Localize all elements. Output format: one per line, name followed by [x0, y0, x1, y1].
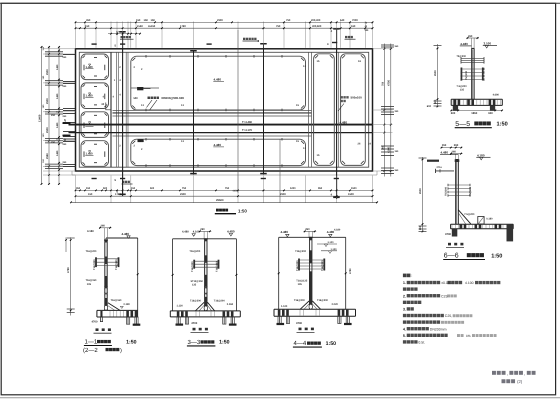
svg-text:4: 4: [331, 193, 333, 197]
plan: section cut line 5 (vertical): [122, 31, 124, 196]
section 3-3 (interior wall, full box): slab end bars/piles: [223, 311, 226, 316]
svg-text:350: 350: [395, 110, 400, 113]
svg-text:140: 140: [133, 97, 138, 100]
plan: dark box on weir line: [137, 87, 143, 90]
section 3-3 (interior wall, full box): haunch: [195, 302, 204, 311]
section 1-1 (edge wall): vertical dim line: [65, 237, 67, 252]
section 1-1 (edge wall): vertical dim line: [70, 237, 72, 315]
svg-text:135: 135: [87, 283, 92, 286]
svg-text:350: 350: [76, 187, 81, 190]
plan left dimension lines: [41, 47, 43, 184]
section 4-4: water level marks right of wall: [317, 243, 337, 245]
svg-text:T16@200: T16@200: [317, 299, 329, 302]
svg-text:0.5t.: 0.5t.: [418, 341, 425, 345]
svg-text:4700: 4700: [445, 233, 451, 236]
svg-text:260: 260: [101, 225, 106, 228]
svg-text:3.: 3.: [403, 308, 406, 312]
svg-text:5: 5: [115, 44, 117, 47]
section 1-1: left slab end bar: [100, 311, 102, 317]
svg-text:4700: 4700: [92, 320, 98, 323]
svg-text:4.480: 4.480: [281, 230, 289, 234]
svg-text:600: 600: [451, 112, 456, 115]
svg-text:T16@200: T16@200: [216, 261, 219, 272]
section 1-1: small level tri on haunch: [120, 306, 123, 308]
plan: chamber corner ticks: [132, 58, 135, 61]
plan: section cut line 3 (vertical): [193, 50, 195, 175]
svg-text:260: 260: [452, 151, 457, 154]
section 3-3 (interior wall, full box): splice marks: [204, 286, 207, 289]
svg-text:15: 15: [296, 104, 299, 107]
svg-text:250: 250: [63, 56, 68, 59]
svg-text:150: 150: [42, 75, 45, 79]
svg-text:150: 150: [136, 19, 141, 22]
section 1-1 (edge wall): drain hole: [104, 305, 107, 310]
svg-text:4.180: 4.180: [477, 153, 485, 157]
svg-text:2900: 2900: [434, 70, 437, 76]
svg-text:1.: 1.: [403, 281, 406, 285]
svg-text:2: 2: [141, 148, 143, 151]
section 5-5 (tee wall on slab): slab end bars/piles: [467, 100, 470, 105]
svg-text:,: ,: [524, 372, 525, 377]
section 4-4 (interior wall, full box, solid): haunch: [300, 301, 309, 309]
svg-text:500x100: 500x100: [351, 96, 363, 100]
plan right dimension lines: [383, 44, 385, 177]
plan left section flags 1 and 2: [63, 122, 71, 124]
svg-text:150: 150: [42, 133, 45, 137]
section 1-1 (edge wall): rebar crossing marks: [96, 258, 119, 260]
svg-text:2560: 2560: [46, 153, 49, 159]
svg-text:4780: 4780: [67, 267, 70, 273]
svg-text:2: 2: [141, 68, 143, 71]
plan: tank outer wall (dark): [76, 49, 373, 171]
plan: weir line in top chamber: [131, 87, 159, 89]
section 1-1 (edge wall): base slab: [97, 309, 138, 311]
svg-text:T16@200: T16@200: [294, 299, 306, 302]
section 1-1 (edge wall): bottom marks: [96, 328, 99, 331]
plan: section cut line 2-2 (horizontal): [69, 132, 373, 134]
svg-text:4x150: 4x150: [148, 25, 156, 28]
section 1-1 (edge wall): tank outline box: [106, 237, 138, 239]
section 5-5 (tee wall on slab): slab end bars/piles: [489, 100, 492, 105]
svg-text:4: 4: [113, 96, 115, 99]
sheet title line 2: [502, 379, 516, 383]
section 3-3 (interior wall, full box): rebar crossing marks: [194, 260, 218, 262]
section 4-4 (interior wall, full box, solid): bottom marks: [299, 328, 302, 331]
svg-text:T16@150: T16@150: [86, 279, 98, 282]
plan top dimension extension lines: [75, 22, 77, 48]
plan: pipe centerline (vertical): [237, 30, 239, 193]
plan: top sedimentation chamber: [131, 56, 306, 110]
plan top labels with underline: [121, 36, 131, 38]
plan: footing edge line below tank: [72, 174, 377, 176]
plan: chamber corner ticks: [315, 55, 318, 58]
svg-text:260: 260: [305, 228, 310, 231]
svg-text:750: 750: [276, 25, 281, 28]
svg-text:T=4.170: T=4.170: [242, 129, 252, 132]
svg-text:250: 250: [51, 141, 56, 144]
plan left boundary tick clusters: [45, 51, 63, 53]
svg-text:(2—2: (2—2: [83, 347, 98, 354]
section 5-5 (tee wall on slab): pile: [453, 106, 458, 111]
svg-text:1480: 1480: [56, 122, 59, 128]
plan: wall between chambers (upper lines): [113, 109, 312, 111]
sheet title line 1: [492, 371, 506, 375]
plan right extension lines: [373, 48, 393, 50]
svg-text:DN100@500-600: DN100@500-600: [162, 96, 185, 100]
svg-text:4.180: 4.180: [87, 230, 94, 233]
section 6-6 (wall with left anchors): slab end bars/piles: [460, 225, 463, 229]
plan: wall between tall chambers: [338, 52, 340, 167]
sheet frame top edge extension: [0, 2, 560, 4]
plan: section cut line 4 (vertical): [336, 28, 338, 199]
svg-text:13: 13: [181, 104, 184, 107]
section 5-5 (tee wall on slab): rebar crossing marks: [461, 57, 484, 59]
section 3-3 (interior wall, full box): tank outline box: [173, 238, 237, 240]
svg-text:2900: 2900: [46, 98, 49, 104]
svg-text:2T16: 2T16: [437, 166, 443, 169]
svg-text:6—6: 6—6: [444, 253, 459, 260]
svg-text:2: 2: [119, 145, 121, 148]
svg-text:3.100: 3.100: [484, 41, 492, 45]
svg-text:0.180: 0.180: [124, 303, 131, 306]
svg-text:150: 150: [42, 158, 45, 162]
svg-text:2900: 2900: [217, 19, 223, 22]
svg-text:1%: 1%: [466, 334, 471, 338]
plan: chamber corner ticks: [342, 55, 345, 58]
svg-text:135: 135: [192, 284, 197, 287]
section 4-4 (interior wall, full box, solid): haunch: [312, 301, 320, 309]
svg-text:1:50: 1:50: [238, 209, 247, 214]
svg-text:4.480: 4.480: [214, 78, 222, 82]
plan: flocculation cell 1: [81, 54, 109, 80]
plan right tick clusters: [381, 44, 394, 46]
svg-text:1:50: 1:50: [126, 339, 136, 345]
svg-text:360: 360: [395, 45, 400, 48]
plan: section 2 flag left: [64, 135, 71, 137]
svg-text:200,300: 200,300: [311, 19, 321, 22]
svg-text:4780: 4780: [349, 268, 352, 274]
plan: flocculation cell 4: [81, 141, 109, 167]
svg-text:T16@200: T16@200: [189, 250, 201, 253]
svg-text:15: 15: [317, 154, 320, 157]
section 5-5 (tee wall on slab): wall stem: [471, 48, 473, 99]
plan: extra thin vertical in bottom chamber: [279, 139, 281, 203]
svg-text:C25,: C25,: [445, 314, 452, 318]
plan: small ticks on chamber edges: [145, 55, 147, 58]
svg-text:T16@200: T16@200: [191, 261, 194, 272]
svg-text:150: 150: [151, 19, 156, 22]
svg-text:260: 260: [200, 228, 205, 231]
svg-text:4.680: 4.680: [493, 93, 500, 96]
svg-text:1780: 1780: [180, 25, 186, 28]
section 6-6 (wall with left anchors): bottom marks: [448, 243, 451, 246]
svg-text:24: 24: [368, 143, 371, 146]
svg-text:T16@200: T16@200: [321, 260, 324, 271]
svg-text::: :: [411, 273, 412, 278]
svg-text:1780: 1780: [115, 193, 121, 196]
section 6-6: curb block: [478, 217, 484, 225]
svg-text:1480: 1480: [56, 64, 59, 70]
svg-text:4: 4: [119, 94, 121, 97]
section 4-4 (interior wall, full box, solid): slab end bars/piles: [278, 310, 281, 316]
section 5-5 (tee wall on slab): pile: [490, 106, 495, 111]
svg-text:250: 250: [63, 85, 68, 88]
svg-text:4.480: 4.480: [340, 120, 348, 124]
svg-text:1200: 1200: [290, 187, 296, 190]
svg-text:4.: 4.: [403, 327, 406, 331]
svg-text:2: 2: [134, 66, 136, 69]
svg-text:40: 40: [365, 25, 368, 28]
plan left wall tick clusters: [63, 54, 75, 56]
svg-text:950: 950: [318, 187, 323, 190]
svg-text:300,600: 300,600: [312, 25, 322, 28]
plan bottom dimension row 3: [71, 201, 377, 203]
svg-text:350: 350: [86, 19, 91, 22]
svg-text:15: 15: [317, 60, 320, 63]
svg-text:4700: 4700: [296, 322, 302, 325]
svg-text:11400: 11400: [38, 114, 41, 122]
svg-text:5T12@150: 5T12@150: [191, 280, 204, 283]
svg-text:150: 150: [85, 25, 90, 28]
plan top dimension row 1: [76, 21, 373, 23]
svg-text:22: 22: [116, 30, 119, 33]
svg-text:0.184: 0.184: [227, 303, 234, 306]
svg-text:2.: 2.: [403, 294, 406, 298]
svg-text:75@200: 75@200: [444, 186, 447, 196]
svg-text:13: 13: [141, 140, 144, 143]
section 1-1 (edge wall): wall stem: [104, 240, 107, 311]
section 4-4 (interior wall, full box, solid): rebar crossing marks: [299, 259, 324, 261]
svg-text:4.480: 4.480: [214, 143, 222, 147]
svg-text:1: 1: [114, 79, 116, 82]
svg-text:T16@200: T16@200: [93, 259, 96, 270]
section 5-5 (tee wall on slab): slab end bars/piles: [453, 100, 456, 105]
svg-text:600: 600: [427, 105, 432, 108]
svg-text:1.120: 1.120: [281, 305, 288, 308]
section 6-6 (wall with left anchors): vertical dim line: [422, 157, 424, 232]
svg-text:1.150: 1.150: [331, 248, 338, 251]
svg-text:0.180: 0.180: [486, 217, 493, 220]
svg-text:1:50: 1:50: [219, 340, 229, 346]
plan: wall between chambers (lower line): [113, 135, 312, 137]
svg-text:T=4.480: T=4.480: [242, 121, 252, 124]
svg-text:5—5: 5—5: [455, 121, 470, 128]
svg-text:75@200: 75@200: [457, 55, 467, 58]
plan: tall right chamber 2: [341, 54, 366, 166]
plan title: [216, 209, 228, 212]
plan bottom dimension extension lines: [75, 176, 77, 204]
svg-text:29600: 29600: [216, 199, 224, 202]
plan: tall right chamber 1: [314, 54, 335, 166]
svg-text:7.5@200: 7.5@200: [457, 85, 468, 88]
svg-text:4—4: 4—4: [294, 340, 307, 347]
plan: storage zone annotation: [341, 96, 349, 98]
svg-text:3—3: 3—3: [188, 339, 201, 346]
svg-text:750: 750: [286, 19, 291, 22]
svg-text:4.100: 4.100: [193, 231, 200, 234]
svg-text:4700: 4700: [191, 322, 197, 325]
svg-text:1480: 1480: [56, 93, 59, 99]
svg-text:4.480: 4.480: [182, 231, 189, 234]
svg-text:1.120: 1.120: [177, 305, 184, 308]
svg-text:70: 70: [365, 22, 368, 25]
section 4-4 (interior wall, full box, solid): drain hole: [309, 304, 312, 309]
svg-text:4: 4: [103, 96, 105, 99]
svg-text:2900: 2900: [46, 127, 49, 133]
svg-text:): ): [120, 347, 122, 354]
plan left extension lines: [43, 48, 76, 50]
section 3-3 (interior wall, full box): base slab: [170, 310, 240, 312]
svg-text:75@200: 75@200: [469, 186, 472, 196]
svg-text:4.480: 4.480: [122, 232, 130, 236]
section 6-6: left anchor hooks: [427, 160, 439, 162]
plan: wall right of chambers: [308, 52, 310, 167]
svg-text:T16@200: T16@200: [296, 260, 299, 271]
plan: chamber corner ticks: [132, 141, 135, 144]
plan: wall right of cells: [110, 52, 112, 167]
svg-text:5.: 5.: [403, 334, 406, 338]
svg-text:4: 4: [327, 43, 329, 46]
svg-text:135: 135: [298, 283, 303, 286]
svg-text:260: 260: [468, 35, 473, 38]
svg-text:C25: C25: [441, 294, 447, 298]
plan bottom dimension row 1: [76, 189, 373, 191]
svg-text:T16@200: T16@200: [86, 250, 98, 253]
svg-text:150: 150: [442, 144, 447, 147]
svg-text:T16@135: T16@135: [296, 279, 308, 282]
section 3-3 (interior wall, full box): slab end bars/piles: [177, 311, 180, 316]
svg-text:1500: 1500: [351, 187, 357, 190]
svg-text:1:50: 1:50: [491, 253, 502, 259]
section 1-1 (edge wall): haunch: [108, 303, 120, 311]
section 1-1 (edge wall): slab end bars/piles: [126, 311, 129, 317]
svg-text:1—1: 1—1: [85, 339, 98, 346]
section 6-6 (wall with left anchors): wall stem: [455, 160, 457, 225]
svg-text:(2): (2): [517, 379, 523, 384]
plan top small dim cluster left: [108, 33, 140, 35]
section 6-6 (wall with left anchors): slab end bars/piles: [495, 225, 498, 229]
plan: bottom sedimentation chamber: [131, 139, 306, 165]
svg-text:750: 750: [182, 187, 187, 190]
section 5-5 (tee wall on slab): vertical dim line: [437, 44, 439, 107]
plan: section cut line 6 (vertical): [263, 43, 265, 175]
section 5-5 (tee wall on slab): base slab: [451, 98, 502, 100]
section 4-4 (interior wall, full box, solid): tank outline box: [279, 236, 346, 238]
svg-text:1:50: 1:50: [497, 122, 508, 128]
svg-text:26: 26: [358, 143, 361, 146]
section 4-4 (interior wall, full box, solid): slab end bars/piles: [338, 310, 341, 316]
svg-text:750: 750: [381, 81, 384, 86]
section 6-6: wall top cap: [455, 159, 460, 162]
svg-text:150: 150: [42, 104, 45, 108]
plan: tank inner wall face (gray): [79, 52, 368, 167]
svg-text:150: 150: [144, 19, 149, 22]
plan: section cut line 1-1 (horizontal, thick): [69, 124, 373, 126]
svg-text:T16@200: T16@200: [190, 299, 202, 302]
svg-text:2x50: 2x50: [137, 25, 143, 28]
notes block header (shuoming): [403, 274, 411, 278]
svg-text:0.020: 0.020: [332, 303, 339, 306]
svg-text:4: 4: [119, 79, 121, 82]
svg-text:30: 30: [101, 103, 104, 106]
plan: flocculation cell 3: [81, 112, 109, 138]
svg-text:T16@200: T16@200: [115, 259, 118, 270]
section 4-4 (interior wall, full box, solid): base slab: [274, 308, 356, 310]
plan: section 1 flag left: [64, 122, 71, 124]
svg-text:250: 250: [63, 161, 68, 164]
section 6-6 (wall with left anchors): base slab: [451, 223, 514, 225]
svg-text:2: 2: [119, 66, 121, 69]
plan: distribution channel walls: [116, 52, 118, 167]
section 6-6 (wall with left anchors): rebar crossing marks: [448, 184, 470, 186]
plan: dark box on bottom chamber edge: [138, 139, 144, 142]
svg-text:150: 150: [395, 150, 400, 153]
svg-text:T16@200: T16@200: [214, 299, 226, 302]
svg-text:,: ,: [507, 372, 508, 377]
svg-text:4.100: 4.100: [465, 281, 474, 285]
sheet bottom edge line: [0, 397, 560, 399]
svg-text:750: 750: [225, 187, 230, 190]
svg-text:1480: 1480: [56, 150, 59, 156]
svg-text:4.180: 4.180: [334, 229, 341, 232]
svg-text:T16@160: T16@160: [111, 299, 123, 302]
section 6-6 (wall with left anchors): haunch: [458, 210, 471, 224]
section 3-3 (interior wall, full box): bottom marks: [193, 328, 196, 331]
svg-text:75@200: 75@200: [465, 70, 468, 80]
svg-text:7000: 7000: [352, 19, 358, 22]
svg-text:2900: 2900: [46, 69, 49, 75]
svg-text:4.480: 4.480: [460, 42, 468, 46]
plan top dimension row 2: [76, 27, 373, 29]
svg-text:150: 150: [88, 193, 93, 196]
section 6-6 (wall with left anchors): slab end bars/piles: [475, 225, 478, 229]
svg-text:120: 120: [365, 29, 370, 32]
svg-text:160: 160: [351, 25, 356, 28]
svg-text:2900: 2900: [280, 193, 286, 196]
svg-text:500: 500: [103, 187, 108, 190]
section 6-6 (wall with left anchors): pile: [452, 229, 458, 237]
plan: flocculation cell 2: [81, 83, 109, 109]
svg-text:2900: 2900: [180, 193, 186, 196]
svg-text:7.5@200: 7.5@200: [464, 213, 475, 216]
plan top section flags: [92, 43, 97, 44]
svg-text:4.480: 4.480: [441, 151, 449, 155]
svg-text:DN200mm: DN200mm: [430, 327, 447, 331]
svg-text:2900: 2900: [419, 188, 422, 194]
svg-text:250: 250: [51, 114, 56, 117]
svg-text:3.100: 3.100: [328, 241, 335, 244]
section 6-6 (wall with left anchors): pile: [507, 225, 514, 242]
section 3-3 (interior wall, full box): drain hole: [204, 306, 207, 311]
svg-text:250: 250: [63, 143, 68, 146]
svg-text:360: 360: [395, 169, 400, 172]
section 1-1 (edge wall): splice marks: [104, 286, 107, 289]
plan bottom section flags: [92, 178, 97, 179]
svg-text:4750: 4750: [388, 80, 391, 86]
svg-text:150: 150: [86, 187, 91, 190]
svg-text:640: 640: [340, 19, 345, 22]
svg-text:T16@200: T16@200: [295, 250, 307, 253]
svg-text:2: 2: [134, 145, 136, 148]
svg-text:1500: 1500: [348, 193, 354, 196]
svg-text:13: 13: [141, 104, 144, 107]
plan bottom dimension row 2: [76, 195, 373, 197]
section 4-4 (interior wall, full box, solid): wall stem: [309, 237, 312, 309]
svg-text:16: 16: [358, 60, 361, 63]
svg-text:150: 150: [131, 187, 136, 190]
svg-text:135: 135: [460, 89, 465, 92]
svg-text:4.480: 4.480: [227, 229, 235, 233]
